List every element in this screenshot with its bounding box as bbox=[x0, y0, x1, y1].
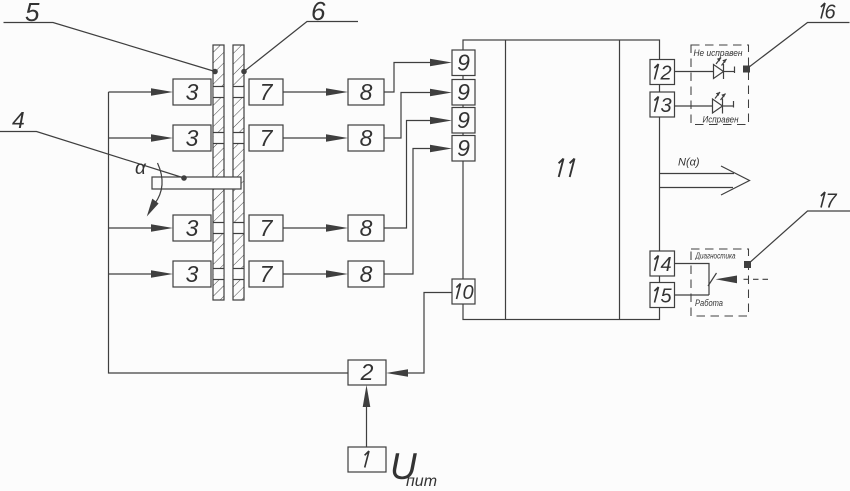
leader label 4 bbox=[0, 107, 187, 181]
svg-text:7: 7 bbox=[260, 261, 274, 287]
leader label 16 bbox=[743, 2, 850, 73]
block 3 row1 bbox=[173, 79, 211, 105]
label 11 bbox=[559, 159, 564, 178]
arrowhead into block 3 row2 bbox=[151, 134, 173, 142]
svg-text:9: 9 bbox=[457, 79, 470, 105]
svg-text:2: 2 bbox=[659, 63, 671, 85]
wire 7 to 8 row2 bbox=[283, 134, 348, 142]
block 15 bbox=[650, 283, 675, 308]
svg-text:3: 3 bbox=[186, 125, 199, 151]
block 13 bbox=[650, 92, 675, 117]
LED D1 bbox=[714, 58, 735, 80]
block 8 row3 bbox=[348, 215, 384, 241]
block 9 b bbox=[452, 79, 475, 105]
block 10 bbox=[452, 279, 475, 304]
svg-text:9: 9 bbox=[457, 50, 470, 76]
svg-text:9: 9 bbox=[457, 107, 470, 133]
arrowhead into block 3 row3 bbox=[151, 224, 173, 232]
wire 8 to 9 row1 bbox=[384, 59, 452, 92]
svg-text:7: 7 bbox=[260, 215, 274, 241]
wire 8 to 9 row2 bbox=[384, 89, 452, 138]
svg-text:5: 5 bbox=[660, 286, 672, 308]
wire 1 to 2 bbox=[363, 385, 371, 447]
svg-text:7: 7 bbox=[260, 125, 274, 151]
block 7 row2 bbox=[249, 125, 283, 151]
leader label 5 bbox=[4, 0, 218, 74]
wire input row3 bbox=[109, 227, 154, 229]
switch SA1 bbox=[708, 273, 768, 286]
block 3 row3 bbox=[173, 215, 211, 241]
switch wire from 15 bbox=[675, 294, 710, 296]
block 12 bbox=[650, 60, 675, 85]
LED D1 wire from 12 bbox=[675, 71, 714, 73]
switch wire from 14 bbox=[675, 264, 710, 296]
svg-text:3: 3 bbox=[186, 215, 199, 241]
block 8 row2 bbox=[348, 125, 384, 151]
svg-text:N(α): N(α) bbox=[678, 157, 700, 169]
block 9 c bbox=[452, 107, 475, 133]
label U pit bbox=[390, 446, 437, 490]
block 3 row4 bbox=[173, 261, 211, 287]
slot row4 bbox=[213, 269, 245, 280]
svg-text:0: 0 bbox=[462, 282, 473, 304]
inner column line right bbox=[619, 40, 621, 320]
svg-text:9: 9 bbox=[457, 135, 470, 161]
angle alpha arc bbox=[135, 158, 162, 217]
arrowhead into block 3 row1 bbox=[151, 88, 173, 96]
LED D2 bbox=[713, 92, 734, 114]
wire input row4 bbox=[109, 273, 154, 275]
slot row2 bbox=[213, 133, 245, 144]
processing unit 11 (outer frame) bbox=[463, 40, 660, 320]
svg-text:Исправен: Исправен bbox=[703, 115, 740, 126]
wire 8 to 9 row4 bbox=[384, 145, 452, 274]
block 9 d bbox=[452, 135, 475, 161]
svg-text:7: 7 bbox=[825, 191, 837, 213]
svg-text:Диагностика: Диагностика bbox=[695, 251, 736, 261]
svg-text:8: 8 bbox=[360, 215, 373, 241]
block 1 bbox=[348, 447, 386, 472]
svg-text:α: α bbox=[135, 158, 147, 179]
slot row1 bbox=[213, 87, 245, 98]
wire left bus bbox=[109, 92, 349, 373]
block 7 row3 bbox=[249, 215, 283, 241]
svg-text:2: 2 bbox=[360, 359, 374, 385]
svg-text:7: 7 bbox=[260, 79, 274, 105]
svg-text:4: 4 bbox=[660, 254, 671, 276]
arrowhead into block 3 row4 bbox=[151, 270, 173, 278]
block 14 bbox=[650, 251, 675, 276]
leader label 6 bbox=[241, 0, 358, 74]
svg-text:8: 8 bbox=[360, 79, 373, 105]
block 3 row2 bbox=[173, 125, 211, 151]
wire input row2 bbox=[109, 137, 154, 139]
inner column line left bbox=[505, 40, 507, 320]
svg-text:Работа: Работа bbox=[695, 298, 723, 309]
slot row3 bbox=[213, 223, 245, 234]
wire 7 to 8 row4 bbox=[283, 270, 348, 278]
svg-text:Не исправен: Не исправен bbox=[694, 48, 744, 59]
slotted disk 6 (hatched bar) bbox=[233, 45, 244, 300]
svg-text:6: 6 bbox=[824, 2, 836, 24]
wire 10 to 2 bbox=[386, 293, 452, 377]
wire 8 to 9 row3 bbox=[384, 117, 452, 228]
svg-text:пит: пит bbox=[406, 473, 437, 490]
wire 7 to 8 row1 bbox=[283, 88, 348, 96]
LED D2 wire from 13 bbox=[675, 105, 713, 107]
block 8 row4 bbox=[348, 261, 384, 287]
leader label 17 bbox=[744, 191, 850, 269]
block 7 row4 bbox=[249, 261, 283, 287]
block 2 bbox=[348, 359, 386, 385]
block 9 a bbox=[452, 50, 475, 76]
block 7 row1 bbox=[249, 79, 283, 105]
svg-text:8: 8 bbox=[360, 261, 373, 287]
slotted disk 5 (hatched bar) bbox=[213, 45, 224, 300]
block 8 row1 bbox=[348, 79, 384, 105]
selector box 17 (dashed) bbox=[691, 249, 749, 316]
output arrow N(alpha) bbox=[660, 166, 750, 195]
indicator box 16 (dashed) bbox=[691, 45, 749, 125]
svg-text:8: 8 bbox=[360, 125, 373, 151]
svg-text:3: 3 bbox=[660, 95, 671, 117]
svg-text:3: 3 bbox=[186, 261, 199, 287]
svg-text:4: 4 bbox=[12, 107, 25, 133]
lever 4 (pointer arm through disks) bbox=[152, 177, 241, 189]
svg-text:3: 3 bbox=[186, 79, 199, 105]
wire 7 to 8 row3 bbox=[283, 224, 348, 232]
wire input row1 bbox=[109, 91, 154, 93]
